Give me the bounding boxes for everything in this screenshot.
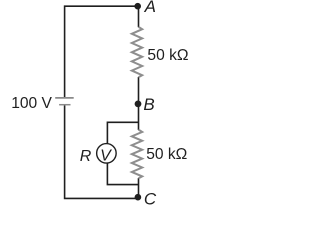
svg-text:B: B — [143, 95, 154, 114]
svg-text:50 kΩ: 50 kΩ — [146, 146, 187, 163]
svg-text:50 kΩ: 50 kΩ — [147, 47, 188, 64]
svg-text:V: V — [100, 148, 112, 165]
svg-text:R: R — [80, 148, 92, 165]
svg-text:A: A — [144, 0, 156, 16]
svg-text:100 V: 100 V — [11, 95, 52, 112]
svg-text:C: C — [144, 190, 157, 209]
